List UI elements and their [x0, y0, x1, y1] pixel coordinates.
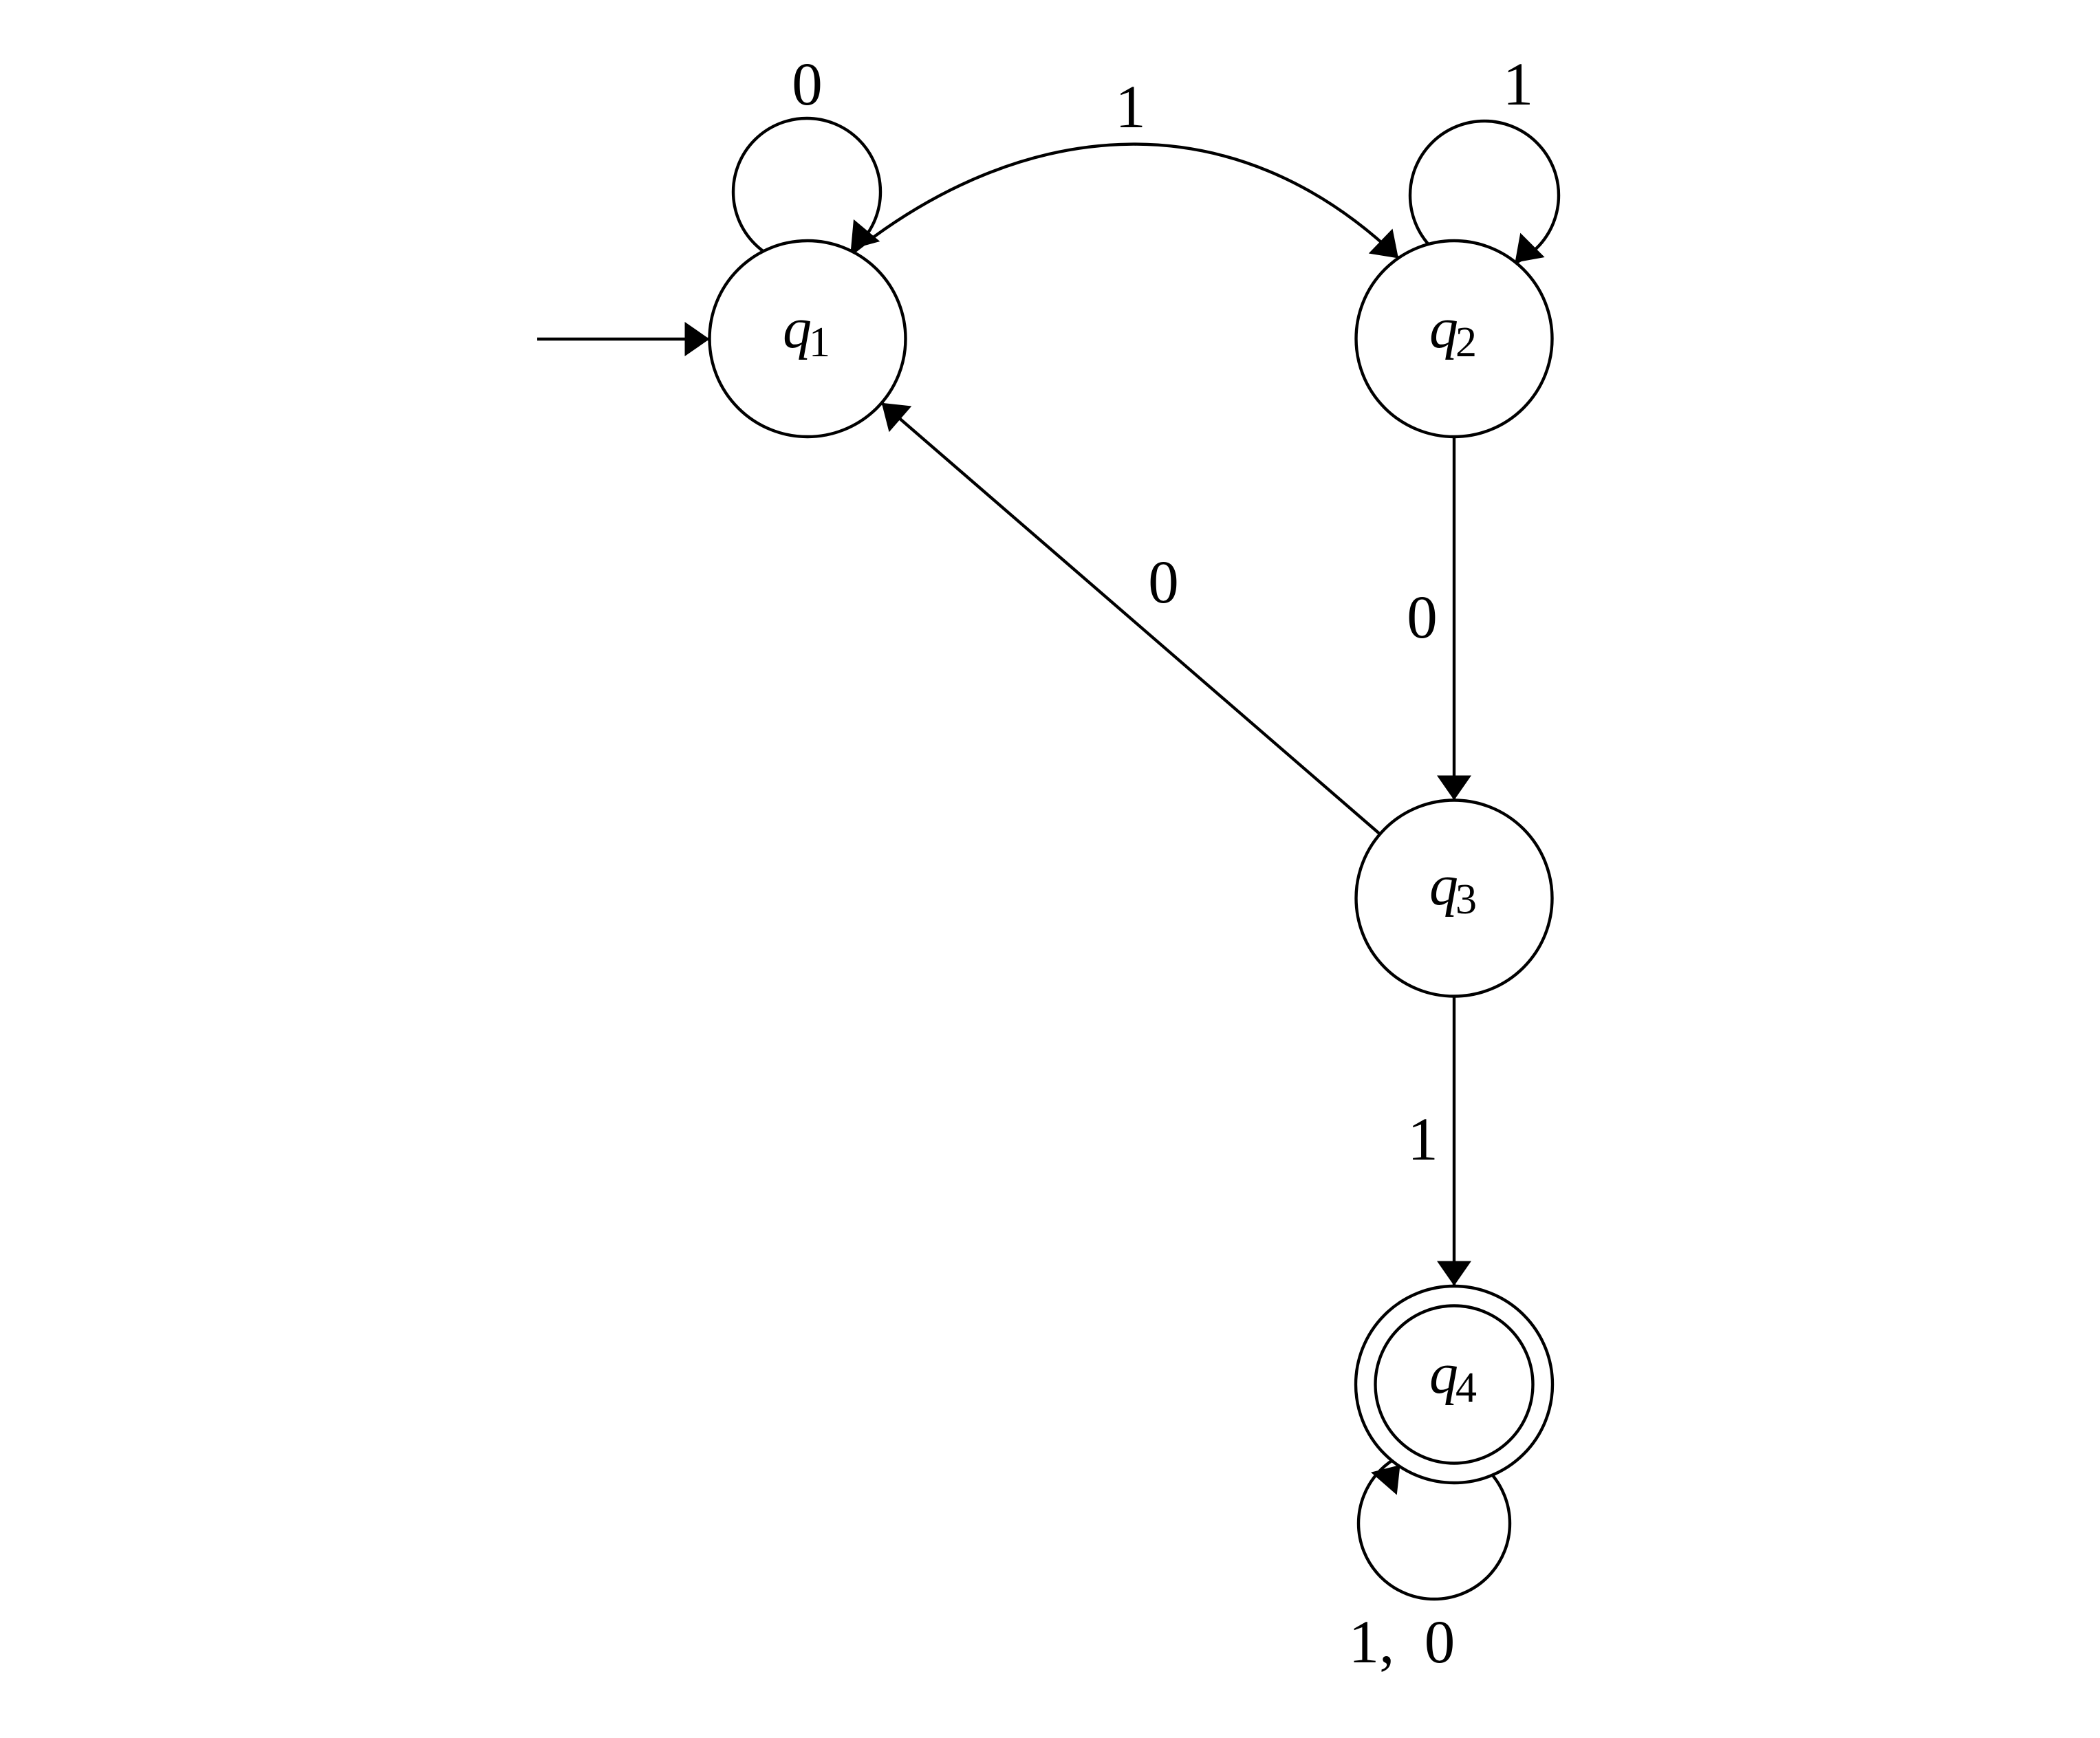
- svg-text:1: 1: [1115, 74, 1146, 141]
- wire: edge q3 to q1 (label 0): [882, 403, 1454, 898]
- wire: self-loop circle on q1 (label 0): [733, 118, 880, 265]
- svg-text:q: q: [1429, 1342, 1458, 1406]
- svg-text:1: 1: [1407, 1106, 1438, 1173]
- wire: start arrow shaft into q1: [537, 338, 808, 340]
- state q4 (accepting, double circle): [1356, 1286, 1552, 1483]
- state q1: [710, 241, 906, 437]
- svg-text:0: 0: [1407, 584, 1438, 651]
- wire: edge q2 to q3 (label 0): [1453, 339, 1455, 898]
- wire: edge q3 to q4 (label 1): [1453, 898, 1455, 1286]
- state q2: [1356, 241, 1552, 437]
- svg-text:3: 3: [1455, 876, 1477, 923]
- arrowhead: q3 to q4 edge at q4: [1437, 1261, 1471, 1286]
- svg-text:q: q: [1429, 854, 1458, 917]
- arrowhead: q4 self-loop: [1371, 1454, 1413, 1495]
- arrowhead: q1 to q2 edge at q2: [1369, 229, 1411, 271]
- arrowhead: start arrow into q1: [685, 322, 710, 356]
- svg-text:1: 1: [1503, 51, 1534, 118]
- arrowhead: q3 to q1 edge at q1: [870, 390, 911, 432]
- wire: curved edge q1 to q2 (label 1): [825, 144, 1400, 274]
- svg-text:0: 0: [1148, 549, 1179, 616]
- svg-text:0: 0: [792, 51, 823, 118]
- arrowhead: q2 to q3 edge at q3: [1437, 776, 1471, 801]
- svg-text:q: q: [783, 296, 812, 360]
- wire: self-loop circle on q4 (label 1, 0): [1358, 1448, 1510, 1599]
- state q3: [1356, 801, 1552, 997]
- wire: self-loop circle on q2 (label 1): [1410, 121, 1559, 270]
- svg-text:1: 1: [809, 319, 830, 366]
- svg-text:2: 2: [1455, 319, 1477, 366]
- svg-text:0: 0: [1425, 1609, 1455, 1676]
- svg-text:4: 4: [1455, 1365, 1477, 1411]
- svg-text:1,: 1,: [1349, 1609, 1395, 1676]
- arrowhead: q1 self-loop: [838, 219, 880, 261]
- arrowhead: q2 self-loop: [1503, 233, 1545, 275]
- svg-text:q: q: [1429, 296, 1458, 360]
